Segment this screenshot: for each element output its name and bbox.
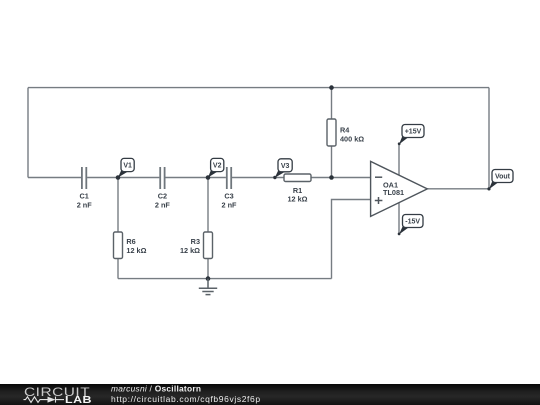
wire C2 to C3 (node V2) (165, 177, 226, 179)
op-amp OA1 label (383, 181, 404, 198)
power flag +15V (398, 125, 424, 146)
wire C1 to C2 (node V1) (87, 177, 159, 179)
wire -15V supply stub (398, 202, 400, 234)
footer bar (0, 384, 540, 405)
capacitor C3 label (222, 192, 238, 210)
wire R3 bottom lead (207, 259, 209, 279)
CircuitLab logo (0, 384, 300, 405)
svg-text:+15V: +15V (405, 129, 422, 136)
svg-text:V1: V1 (123, 163, 132, 170)
svg-text:V3: V3 (281, 163, 290, 170)
op-amp OA1 plus pin (375, 197, 383, 204)
svg-text:V2: V2 (213, 163, 222, 170)
svg-text:C3: C3 (224, 192, 233, 201)
node junction dot V2 (206, 175, 211, 180)
node flag V3 (273, 159, 292, 179)
resistor R3 label (180, 237, 200, 255)
resistor R6 (114, 232, 123, 259)
ground (199, 279, 217, 295)
wire R1 to op-amp inverting input (311, 177, 371, 179)
net flag Vout (487, 170, 513, 191)
svg-text:2 nF: 2 nF (155, 201, 171, 210)
svg-text:Vout: Vout (495, 174, 511, 181)
svg-text:C2: C2 (158, 192, 167, 201)
node junction dot ground (206, 276, 211, 281)
resistor R4 (327, 119, 336, 146)
svg-text:TL081: TL081 (383, 188, 404, 197)
resistor R6 label (126, 237, 146, 255)
svg-text:-15V: -15V (405, 219, 420, 226)
node junction dot V1 (116, 175, 121, 180)
wire C3 to R1 (node V3) (232, 177, 284, 179)
capacitor C3 (227, 167, 231, 189)
capacitor C1 label (77, 192, 93, 210)
svg-text:R4: R4 (340, 126, 350, 135)
svg-text:C1: C1 (80, 192, 89, 201)
node flag V1 (118, 158, 134, 177)
node flag V2 (208, 158, 224, 177)
svg-text:http://circuitlab.com/cqfb96vj: http://circuitlab.com/cqfb96vjs2f6p (111, 394, 261, 404)
svg-text:R3: R3 (191, 237, 200, 246)
svg-text:12 kΩ: 12 kΩ (126, 246, 146, 255)
resistor R1 label (287, 186, 307, 203)
svg-text:12 kΩ: 12 kΩ (180, 246, 200, 255)
svg-text:R6: R6 (126, 237, 135, 246)
wire left vertical (27, 88, 29, 178)
resistor R4 label (340, 126, 364, 144)
wire non-inverting input (332, 200, 371, 279)
svg-text:2 nF: 2 nF (222, 201, 238, 210)
svg-text:marcusni / Oscillatorn: marcusni / Oscillatorn (111, 384, 201, 394)
wire R3 top lead (207, 178, 209, 233)
node junction dot R4 bottom (329, 175, 334, 180)
resistor R3 (204, 232, 213, 259)
wire input to C1 (28, 177, 81, 179)
power flag -15V (398, 215, 423, 236)
capacitor C1 (82, 167, 86, 189)
wire op-amp output (427, 188, 489, 190)
resistor R1 (284, 174, 311, 182)
wire bottom (118, 278, 332, 280)
wire R4 top lead (331, 88, 333, 119)
node junction dot R4 top (329, 85, 334, 90)
svg-text:400 kΩ: 400 kΩ (340, 135, 364, 144)
capacitor C2 (160, 167, 164, 189)
wire +15V supply stub (398, 144, 400, 175)
svg-text:2 nF: 2 nF (77, 201, 93, 210)
svg-text:12 kΩ: 12 kΩ (287, 195, 307, 204)
footer attribution text (0, 384, 400, 405)
op-amp OA1 (371, 161, 428, 216)
wire R6 top lead (117, 178, 119, 233)
wire R6 bottom lead (117, 259, 119, 279)
wire right vertical (488, 88, 490, 189)
op-amp OA1 minus pin (375, 176, 382, 178)
capacitor C2 label (155, 192, 171, 210)
wire R4 bottom lead (331, 146, 333, 178)
wire top feedback (28, 87, 489, 89)
